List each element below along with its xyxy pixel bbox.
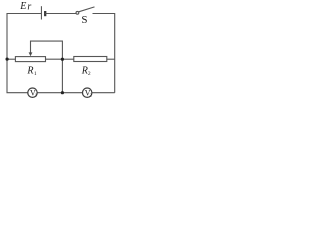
battery short thick plate [44,11,46,16]
junction dot node B [61,91,64,94]
wire switch to top-right corner and down right side [93,14,115,93]
wire left to resistor R1 [7,58,15,60]
junction dot node A [61,58,64,61]
switch lever [79,7,95,12]
voltmeter V1 circle [28,88,37,97]
wire bottom: V1 to node B [37,92,62,94]
svg-text:1: 1 [35,93,37,98]
junction dot left [6,58,9,61]
switch S pivot circle [76,11,79,14]
voltmeter V2 circle [83,88,92,97]
wire R2 to right side [107,58,115,60]
battery E r long plate [40,6,42,19]
wire left side down to bottom-left corner [7,59,28,93]
svg-text:R: R [26,65,33,76]
wire bottom: V2 to bottom-right corner [92,92,115,94]
svg-text:R: R [81,65,88,76]
resistor R2 box [74,57,107,62]
wire node A down to node B [61,59,63,92]
svg-text:2: 2 [90,93,92,98]
wire top-left from corner to battery [7,14,41,60]
rheostat wiper arm wire [31,41,63,59]
svg-text:S: S [81,14,87,26]
wire bottom: node B to V2 [62,92,82,94]
svg-text:2: 2 [88,71,91,77]
svg-text:r: r [27,1,31,12]
svg-text:1: 1 [34,71,37,77]
wire R1 to node A [46,58,63,60]
svg-text:E: E [19,1,26,12]
wire battery to switch [45,13,76,15]
rheostat wiper arrowhead [29,52,33,56]
wire node A to R2 [62,58,73,60]
resistor R1 box [15,57,45,62]
